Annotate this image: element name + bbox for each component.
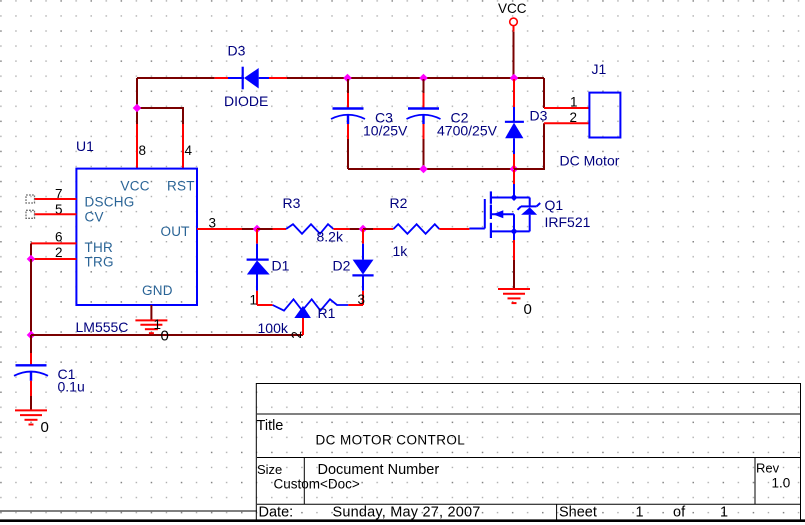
- svg-text:DIODE: DIODE: [224, 93, 268, 109]
- svg-text:R3: R3: [283, 195, 301, 211]
- resistor R3: [286, 224, 333, 234]
- wire: top VCC bus y=78 from U1 pin8 corner to J1 branch corner: [137, 77, 544, 79]
- svg-text:Sheet: Sheet: [559, 505, 597, 521]
- node junction top bus at C3: [343, 74, 352, 83]
- diode D2: [352, 229, 373, 305]
- svg-text:IRF521: IRF521: [545, 214, 591, 230]
- svg-text:Date:: Date:: [259, 505, 294, 521]
- svg-text:CV: CV: [85, 209, 104, 224]
- svg-text:Sunday, May 27, 2007: Sunday, May 27, 2007: [333, 505, 481, 521]
- op-amp/IC U1 LM555C body: [76, 169, 197, 305]
- node junction top bus at VCC/D3: [510, 74, 519, 83]
- svg-text:DC MOTOR CONTROL: DC MOTOR CONTROL: [316, 433, 466, 448]
- svg-text:GND: GND: [142, 283, 173, 298]
- wire: R2 to Q1 gate: [439, 228, 469, 230]
- svg-text:0: 0: [41, 419, 49, 436]
- wire: junction to R3: [257, 228, 286, 230]
- svg-text:8: 8: [139, 143, 147, 158]
- svg-text:1: 1: [250, 293, 258, 308]
- wire: U1 pin8 vertical: [136, 78, 138, 169]
- title block frame: [0, 384, 801, 521]
- wire: branch to U1 pin4: [137, 108, 183, 169]
- resistor R2: [393, 224, 439, 234]
- diode D3 (horizontal, top): [215, 67, 287, 90]
- svg-text:D3: D3: [530, 108, 548, 124]
- wire: U1 pin7 stub with no-connect: [34, 198, 76, 200]
- svg-text:THR: THR: [85, 240, 114, 255]
- transistor Q1 IRF521 MOSFET: [469, 184, 540, 240]
- svg-text:Size: Size: [257, 462, 282, 477]
- svg-text:R1: R1: [318, 305, 336, 321]
- no-connect marker pin7: [26, 195, 35, 203]
- node junction at C1 top branch: [27, 331, 36, 340]
- no-connect marker pin5: [26, 210, 35, 218]
- svg-text:2: 2: [55, 245, 63, 260]
- svg-text:U1: U1: [76, 138, 94, 154]
- diode D1: [247, 229, 270, 305]
- capacitor C2: [407, 79, 441, 169]
- ground (under Q1): [498, 289, 530, 303]
- svg-text:1: 1: [720, 505, 728, 521]
- svg-text:0.1u: 0.1u: [58, 379, 85, 395]
- svg-text:D3: D3: [228, 43, 246, 59]
- svg-text:10/25V: 10/25V: [363, 123, 408, 139]
- ground (under C1): [15, 410, 47, 424]
- svg-text:2: 2: [570, 110, 578, 125]
- wire: J1 pin1 stub: [544, 107, 589, 109]
- svg-text:Rev: Rev: [756, 461, 780, 476]
- wire: bottom bus y=169 from C3 to J1 branch: [348, 168, 544, 170]
- wire: R1 wiper down: [302, 318, 304, 335]
- svg-text:1: 1: [636, 505, 644, 521]
- wire: J1 feed top L-shape: [543, 78, 545, 108]
- svg-text:VCC: VCC: [121, 178, 150, 193]
- svg-text:VCC: VCC: [498, 1, 527, 16]
- wire: drain stub to bus: [513, 170, 515, 184]
- svg-text:3: 3: [358, 292, 366, 307]
- wire: junction2 to R2: [363, 228, 393, 230]
- svg-text:2: 2: [289, 331, 304, 339]
- power symbol VCC: [510, 18, 518, 77]
- wire: J1 feed bottom L-shape: [514, 123, 544, 169]
- node junction top bus at C2: [419, 74, 428, 83]
- svg-text:DSCHG: DSCHG: [85, 194, 135, 209]
- svg-text:8.2k: 8.2k: [317, 229, 344, 245]
- connector J1: [589, 93, 620, 138]
- node junction R3/R2/D2: [359, 225, 368, 234]
- wire: J1 pin2 stub: [544, 122, 589, 124]
- wire: U1 pin2 TRG wire: [31, 258, 76, 260]
- node junction THR/TRG tie: [27, 255, 36, 264]
- svg-text:D2: D2: [333, 258, 351, 274]
- wire: U1 pin5 stub with no-connect: [34, 213, 76, 215]
- capacitor C1: [14, 335, 48, 410]
- svg-text:J1: J1: [592, 61, 607, 77]
- svg-text:OUT: OUT: [161, 224, 190, 239]
- svg-text:1: 1: [570, 95, 578, 110]
- svg-text:D1: D1: [272, 258, 290, 274]
- svg-text:Q1: Q1: [545, 197, 564, 213]
- wire: OUT pin3 stub: [197, 228, 257, 230]
- wire: U1 pin1 GND stub: [150, 305, 152, 320]
- potentiometer R1: [273, 299, 349, 318]
- wire: D1 to R1 pin1 corner: [257, 304, 273, 306]
- svg-text:RST: RST: [167, 178, 195, 193]
- svg-text:DC Motor: DC Motor: [560, 153, 620, 169]
- wire: U1 pin6 THR wire: [31, 243, 76, 259]
- sheet bottom border (thick): [0, 519, 805, 522]
- wire: horizontal run to R1 wiper: [31, 334, 303, 336]
- svg-text:0: 0: [161, 328, 169, 345]
- svg-text:4700/25V: 4700/25V: [437, 123, 498, 139]
- svg-text:1k: 1k: [393, 243, 409, 259]
- node junction at pin8 branch: [133, 104, 142, 113]
- svg-text:TRG: TRG: [85, 255, 114, 270]
- svg-text:R2: R2: [390, 195, 408, 211]
- svg-text:1.0: 1.0: [772, 476, 791, 491]
- diode D3 (vertical, flyback across motor): [505, 79, 524, 169]
- svg-text:100k: 100k: [258, 320, 289, 336]
- node junction bottom bus at D3/Q1: [510, 165, 519, 174]
- wire: left vertical bus down to C1: [30, 259, 32, 335]
- svg-text:Title: Title: [257, 418, 284, 434]
- svg-text:4: 4: [185, 143, 193, 158]
- svg-text:Custom<Doc>: Custom<Doc>: [274, 477, 360, 492]
- wire: source to ground: [513, 240, 515, 289]
- svg-text:0: 0: [524, 301, 532, 318]
- node junction OUT/D1/R3: [253, 225, 262, 234]
- node junction bottom bus at C2: [419, 165, 428, 174]
- ground (under U1): [135, 320, 167, 333]
- capacitor C3: [331, 79, 365, 169]
- wire: R3 to junction2: [333, 228, 363, 230]
- svg-text:LM555C: LM555C: [76, 319, 129, 335]
- wire: R1 pin3 corner up to D2: [348, 304, 363, 306]
- svg-text:of: of: [673, 505, 686, 521]
